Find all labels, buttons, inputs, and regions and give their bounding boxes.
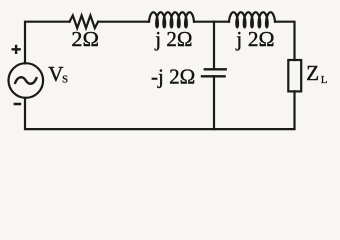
inductor L2 j2ohm <box>229 12 275 27</box>
wire middle branch lower (capacitor to bottom wire) <box>213 76 215 129</box>
capacitor C -j2ohm bottom plate <box>201 75 226 77</box>
voltage source sine symbol <box>15 77 36 84</box>
inductor L1 j2ohm <box>149 12 194 27</box>
wire left branch lower and bottom wire and right branch lower <box>25 91 295 129</box>
wire L2 to top-right corner and down to load <box>275 22 295 60</box>
plus sign of source <box>12 45 21 54</box>
capacitor C -j2ohm top plate <box>204 68 227 70</box>
svg-text:j 2Ω: j 2Ω <box>235 27 274 51</box>
resistor R 2ohm <box>70 16 99 29</box>
svg-text:j 2Ω: j 2Ω <box>154 27 192 51</box>
svg-text:2Ω: 2Ω <box>71 27 99 51</box>
svg-text:-j 2Ω: -j 2Ω <box>151 64 195 88</box>
wire top-left corner segment <box>25 22 70 64</box>
svg-text:Z: Z <box>306 61 319 85</box>
svg-text:S: S <box>62 74 68 86</box>
load ZL box <box>288 60 301 91</box>
minus sign of source <box>14 103 22 106</box>
wire middle branch upper (node to capacitor) <box>213 22 215 70</box>
svg-text:L: L <box>321 74 328 86</box>
wire resistor to inductor L1 <box>98 21 149 23</box>
voltage source VS circle <box>9 63 44 98</box>
wire L1 to inductor L2 (through middle node) <box>194 21 229 23</box>
